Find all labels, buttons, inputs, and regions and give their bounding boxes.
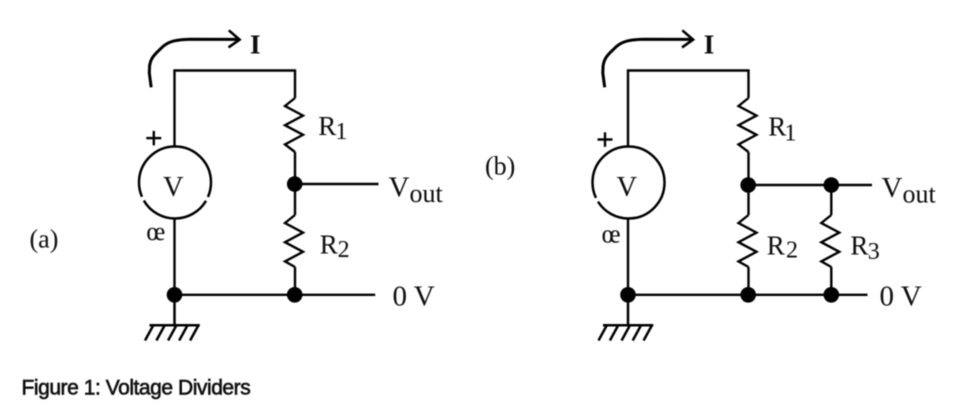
node ground-left (a) — [167, 287, 183, 303]
label R2 (b) — [767, 231, 798, 264]
wire source bottom (b) — [627, 219, 629, 295]
label R1 (b) — [768, 112, 796, 147]
svg-text:out: out — [410, 179, 444, 208]
svg-text:œ: œ — [146, 216, 165, 246]
resistor R2 (a) — [285, 215, 303, 267]
wire Vout row (b) — [748, 184, 872, 186]
current arrow (b) — [603, 30, 693, 87]
wire node1 to R2 (b) — [747, 185, 749, 215]
ground (a) — [145, 295, 200, 341]
svg-text:V: V — [389, 171, 410, 203]
wire node to R2 (a) — [294, 184, 296, 215]
svg-text:V: V — [617, 172, 638, 203]
resistor R1 (a) — [285, 98, 303, 152]
wire bottom rail (b) — [628, 294, 868, 296]
resistor R3 (b) — [821, 215, 839, 267]
plus sign (a) — [146, 131, 161, 146]
svg-text:2: 2 — [338, 237, 350, 263]
node ground-right (b) — [824, 287, 840, 303]
svg-text:R: R — [318, 111, 336, 141]
svg-text:Figure 1: Voltage Dividers: Figure 1: Voltage Dividers — [22, 376, 251, 399]
svg-text:R: R — [320, 229, 338, 259]
voltage source V (b) — [593, 147, 665, 219]
wire source top (b) — [627, 108, 629, 147]
current arrow (a) — [149, 30, 239, 87]
node ground-mid (b) — [740, 287, 756, 303]
svg-text:1: 1 — [784, 120, 796, 146]
wire Vout (a) — [295, 183, 379, 185]
wire bottom rail (a) — [175, 294, 376, 296]
svg-text:(b): (b) — [485, 152, 515, 181]
wire R1 to node (a) — [294, 152, 296, 184]
node ground-right (a) — [287, 287, 303, 303]
wire R2 to rail (b) — [747, 267, 749, 295]
label R2 (a) — [320, 229, 350, 262]
plus sign (b) — [598, 132, 613, 147]
svg-text:(a): (a) — [30, 225, 59, 254]
resistor R1 (b) — [739, 98, 757, 152]
wire top rail (a) — [175, 71, 296, 109]
wire source bottom (a) — [173, 219, 175, 295]
svg-text:1: 1 — [335, 119, 347, 145]
svg-text:R: R — [850, 231, 868, 261]
wire node2 to R3 (b) — [830, 185, 832, 215]
label R3 (b) — [850, 231, 879, 265]
wire source top (a) — [173, 108, 175, 147]
svg-text:I: I — [704, 29, 715, 59]
svg-text:V: V — [163, 172, 184, 203]
label Vout (a) — [389, 171, 444, 208]
resistor R2 (b) — [739, 215, 757, 267]
svg-text:I: I — [250, 29, 261, 59]
svg-text:2: 2 — [786, 237, 798, 263]
wire R3 to rail (b) — [830, 267, 832, 295]
ground (b) — [599, 295, 654, 341]
node Vout (a) — [287, 176, 303, 192]
node Vout-1 (b) — [740, 177, 756, 193]
label Vout (b) — [882, 172, 937, 209]
node ground-left (b) — [620, 287, 636, 303]
wire R2 to rail (a) — [294, 267, 296, 295]
node Vout-2 (b) — [824, 177, 840, 193]
label R1 (a) — [318, 111, 347, 145]
voltage source V (a) — [139, 147, 211, 219]
svg-text:R: R — [767, 231, 785, 261]
svg-text:0 V: 0 V — [393, 281, 435, 313]
wire R1 to node (b) — [747, 152, 749, 185]
svg-text:œ: œ — [602, 218, 621, 248]
svg-text:V: V — [882, 172, 903, 204]
svg-text:3: 3 — [868, 239, 880, 265]
svg-text:out: out — [903, 180, 937, 209]
svg-text:0 V: 0 V — [880, 281, 922, 313]
wire top rail (b) — [628, 71, 749, 109]
